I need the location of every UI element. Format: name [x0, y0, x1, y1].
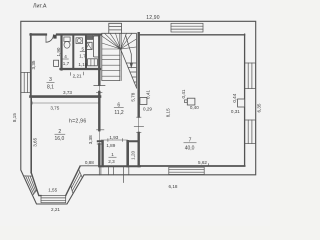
svg-text:1,16: 1,16 — [78, 62, 87, 67]
window bottom wall room7 — [169, 167, 204, 174]
svg-text:2,3: 2,3 — [108, 159, 115, 164]
svg-text:3,75: 3,75 — [50, 106, 59, 111]
bathtub room5a — [93, 36, 99, 57]
svg-text:1,7: 1,7 — [79, 54, 86, 59]
wall left inner face room2 — [30, 97, 32, 173]
svg-text:12,90: 12,90 — [146, 15, 160, 21]
svg-text:Лит.А: Лит.А — [33, 4, 47, 10]
stair treads left — [102, 55, 120, 76]
svg-text:1,89: 1,89 — [106, 143, 115, 148]
stove S3 right wall — [238, 99, 245, 107]
svg-text:4: 4 — [64, 54, 67, 59]
svg-text:0,29: 0,29 — [143, 106, 152, 111]
svg-text:3,73: 3,73 — [63, 90, 72, 95]
stair divider — [120, 33, 121, 80]
svg-text:6,35: 6,35 — [256, 103, 261, 112]
door room3 entry leaf — [45, 35, 47, 42]
svg-text:40,0: 40,0 — [185, 145, 195, 151]
bathroom divider 5|5a — [85, 35, 87, 68]
svg-text:1,55: 1,55 — [48, 188, 57, 193]
window left wall room3 — [21, 73, 31, 93]
svg-text:5,78: 5,78 — [130, 92, 135, 101]
svg-text:1: 1 — [111, 152, 114, 157]
svg-text:11,2: 11,2 — [114, 110, 124, 116]
window right wall lower — [245, 120, 256, 144]
door room2-hall — [98, 130, 100, 144]
wall top inner face — [31, 33, 102, 35]
svg-text:0,44: 0,44 — [232, 93, 237, 102]
svg-text:3,38: 3,38 — [88, 135, 93, 144]
svg-text:0,41: 0,41 — [181, 89, 186, 98]
stair diagonal — [121, 49, 137, 88]
boiler box bathroom bottom — [88, 59, 98, 66]
svg-text:1,20: 1,20 — [131, 150, 136, 159]
svg-text:8,15: 8,15 — [166, 108, 171, 117]
svg-text:8,1: 8,1 — [47, 85, 54, 91]
svg-text:6: 6 — [117, 102, 120, 108]
wall right inner face — [244, 34, 246, 166]
stair arrow down — [126, 35, 132, 65]
flue hatch room5a — [87, 35, 94, 40]
svg-text:3,35: 3,35 — [31, 60, 36, 69]
svg-text:1,93: 1,93 — [109, 135, 118, 140]
svg-text:1,7: 1,7 — [63, 61, 70, 66]
stair top flight — [109, 23, 122, 33]
room1 right wall — [126, 141, 129, 166]
door dark knob — [53, 35, 56, 39]
sink room3 — [54, 60, 59, 66]
dim line 3,75 — [33, 102, 99, 104]
svg-text:h=2,96: h=2,96 — [69, 118, 87, 124]
svg-text:0,40: 0,40 — [190, 105, 199, 110]
bay window bottom — [41, 196, 66, 203]
bay window right diagonal — [71, 169, 83, 194]
door hall-room7 — [138, 117, 140, 134]
svg-text:3,65: 3,65 — [33, 137, 38, 146]
svg-text:6,18: 6,18 — [169, 184, 178, 189]
toilet room4 — [64, 37, 70, 41]
wall hall-room7 W7 — [137, 33, 139, 166]
stove S1 hall wall — [140, 98, 147, 105]
room1 top opening line 1,93 — [101, 139, 128, 141]
room1 top wall segments — [98, 140, 138, 142]
porch compartments below room1 — [101, 166, 129, 182]
window right wall upper — [245, 63, 256, 89]
svg-text:0,31: 0,31 — [231, 109, 240, 114]
bathroom block left wall — [60, 35, 62, 70]
wall bottom inner face rooms 1-2 — [100, 165, 141, 167]
svg-text:3: 3 — [49, 77, 52, 83]
window top wall — [171, 23, 203, 32]
svg-text:0,41: 0,41 — [146, 90, 151, 99]
stair treads right — [126, 63, 136, 82]
svg-text:8,15: 8,15 — [12, 113, 17, 122]
wall between rooms 3 and 2 — [31, 95, 101, 98]
stair winder fan — [102, 33, 137, 49]
outer outline — [21, 21, 256, 204]
sink dark room5a — [87, 42, 93, 49]
bathroom divider 4|5 — [72, 35, 74, 68]
stair block outline — [102, 33, 137, 88]
wall left inner face room3 — [30, 34, 32, 96]
svg-text:5,62: 5,62 — [198, 160, 207, 165]
stove S2 room7 — [187, 98, 195, 105]
door room3 entry arc — [46, 35, 53, 42]
wall center-left W1 — [98, 35, 100, 166]
door room3-hall — [98, 85, 100, 92]
sink room5 — [76, 38, 82, 44]
svg-text:0,88: 0,88 — [85, 160, 94, 165]
door opening 0,88 — [80, 165, 100, 167]
svg-text:16,0: 16,0 — [55, 136, 65, 142]
bathroom block bottom wall — [61, 68, 101, 70]
svg-text:2,21: 2,21 — [73, 74, 82, 79]
svg-text:1,90: 1,90 — [56, 47, 61, 56]
bay inner faces — [31, 166, 80, 195]
bay window left diagonal — [23, 176, 37, 196]
wall bottom inner face room7 — [140, 165, 245, 167]
svg-text:2,21: 2,21 — [51, 207, 60, 212]
svg-text:5: 5 — [82, 46, 85, 51]
